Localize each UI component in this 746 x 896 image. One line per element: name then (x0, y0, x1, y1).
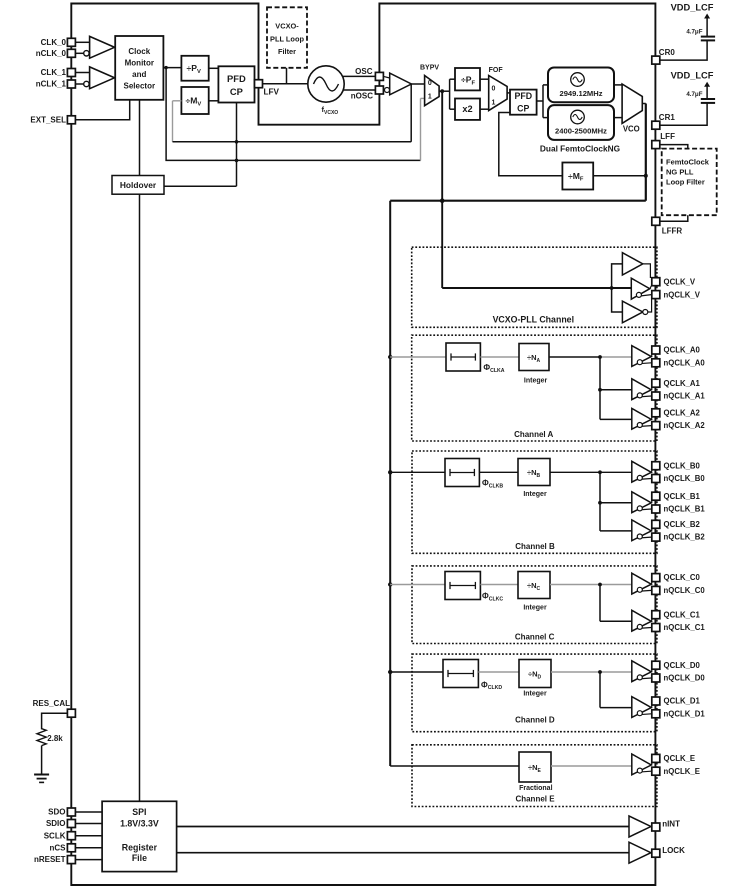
svg-text:PFD: PFD (514, 91, 532, 101)
svg-text:PLL Loop: PLL Loop (270, 35, 304, 44)
svg-text:0: 0 (491, 85, 495, 92)
svg-text:VCXO-PLL Channel: VCXO-PLL Channel (493, 314, 574, 324)
svg-text:QCLK_V: QCLK_V (664, 277, 696, 286)
svg-text:nQCLK_A0: nQCLK_A0 (664, 358, 706, 367)
svg-text:FOF: FOF (489, 67, 504, 74)
svg-text:CLK_1: CLK_1 (41, 68, 67, 77)
svg-text:nRESET: nRESET (34, 855, 66, 864)
svg-text:CR0: CR0 (659, 48, 676, 57)
svg-text:Channel D: Channel D (515, 715, 555, 724)
svg-text:Selector: Selector (124, 81, 156, 90)
svg-text:Integer: Integer (524, 378, 548, 385)
svg-text:Integer: Integer (523, 691, 547, 698)
svg-text:EXT_SEL: EXT_SEL (30, 116, 66, 125)
svg-text:QCLK_B2: QCLK_B2 (664, 520, 701, 529)
svg-text:nINT: nINT (662, 820, 680, 829)
svg-text:Channel C: Channel C (515, 633, 555, 642)
svg-text:RES_CAL: RES_CAL (33, 699, 70, 708)
svg-text:BYPV: BYPV (420, 64, 439, 71)
svg-text:QCLK_B0: QCLK_B0 (664, 461, 701, 470)
svg-text:nQCLK_B2: nQCLK_B2 (664, 533, 706, 542)
svg-text:1.8V/3.3V: 1.8V/3.3V (120, 819, 159, 829)
svg-text:QCLK_A1: QCLK_A1 (664, 379, 701, 388)
svg-text:Channel A: Channel A (514, 430, 553, 439)
svg-text:2949.12MHz: 2949.12MHz (559, 89, 602, 98)
svg-text:Fractional: Fractional (519, 785, 553, 792)
svg-text:CR1: CR1 (659, 113, 676, 122)
svg-text:2.8k: 2.8k (47, 734, 63, 743)
svg-text:Integer: Integer (523, 605, 547, 612)
svg-text:FemtoClock: FemtoClock (666, 157, 710, 166)
svg-text:Integer: Integer (523, 491, 547, 498)
svg-text:OSC: OSC (355, 67, 373, 76)
svg-text:x2: x2 (462, 104, 472, 114)
svg-text:SPI: SPI (132, 807, 146, 817)
svg-text:nQCLK_A2: nQCLK_A2 (664, 421, 706, 430)
svg-text:Filter: Filter (278, 47, 296, 56)
svg-text:LFV: LFV (264, 88, 280, 97)
svg-text:SDIO: SDIO (46, 819, 66, 828)
svg-text:2400-2500MHz: 2400-2500MHz (555, 127, 607, 136)
svg-text:nCS: nCS (50, 843, 67, 852)
svg-text:1: 1 (491, 99, 495, 106)
svg-text:Clock: Clock (128, 47, 150, 56)
svg-text:4.7μF: 4.7μF (686, 91, 702, 98)
svg-text:nQCLK_B0: nQCLK_B0 (664, 474, 706, 483)
svg-text:nQCLK_B1: nQCLK_B1 (664, 505, 706, 514)
svg-text:nQCLK_C1: nQCLK_C1 (664, 623, 706, 632)
svg-text:nQCLK_D0: nQCLK_D0 (664, 674, 706, 683)
svg-text:QCLK_D0: QCLK_D0 (664, 661, 701, 670)
svg-text:nOSC: nOSC (351, 92, 373, 101)
svg-text:LOCK: LOCK (662, 846, 685, 855)
svg-text:LFF: LFF (660, 132, 675, 141)
svg-text:nCLK_0: nCLK_0 (36, 49, 67, 58)
svg-text:LFFR: LFFR (662, 227, 683, 236)
svg-text:4.7μF: 4.7μF (686, 28, 702, 35)
svg-text:QCLK_D1: QCLK_D1 (664, 697, 701, 706)
svg-text:SCLK: SCLK (44, 831, 66, 840)
svg-text:nQCLK_A1: nQCLK_A1 (664, 392, 706, 401)
svg-text:Channel E: Channel E (515, 795, 555, 804)
svg-text:SDO: SDO (48, 808, 65, 817)
svg-text:nQCLK_E: nQCLK_E (664, 767, 700, 776)
svg-text:Loop Filter: Loop Filter (666, 178, 705, 187)
svg-text:PFD: PFD (227, 73, 246, 84)
svg-text:QCLK_A0: QCLK_A0 (664, 346, 701, 355)
svg-text:Register: Register (122, 843, 158, 853)
svg-text:CP: CP (230, 86, 243, 97)
svg-text:CLK_0: CLK_0 (41, 38, 67, 47)
svg-text:0: 0 (428, 80, 432, 87)
svg-text:Dual FemtoClockNG: Dual FemtoClockNG (540, 143, 620, 153)
svg-text:nQCLK_D1: nQCLK_D1 (664, 709, 706, 718)
svg-text:Holdover: Holdover (120, 180, 157, 190)
svg-text:nCLK_1: nCLK_1 (36, 80, 67, 89)
svg-text:VCXO-: VCXO- (275, 21, 299, 30)
svg-text:nQCLK_C0: nQCLK_C0 (664, 586, 706, 595)
svg-text:VCO: VCO (623, 124, 640, 133)
svg-text:QCLK_B1: QCLK_B1 (664, 492, 701, 501)
svg-text:and: and (132, 70, 146, 79)
svg-text:NG PLL: NG PLL (666, 167, 694, 176)
svg-text:VDD_LCF: VDD_LCF (671, 3, 714, 13)
svg-text:VDD_LCF: VDD_LCF (671, 71, 714, 81)
svg-text:CP: CP (517, 104, 529, 114)
svg-text:nQCLK_V: nQCLK_V (664, 290, 701, 299)
svg-text:1: 1 (428, 93, 432, 100)
svg-text:Monitor: Monitor (125, 59, 154, 68)
svg-text:File: File (132, 853, 147, 863)
svg-text:QCLK_A2: QCLK_A2 (664, 408, 701, 417)
svg-text:QCLK_E: QCLK_E (664, 754, 696, 763)
svg-text:QCLK_C0: QCLK_C0 (664, 573, 701, 582)
svg-text:Channel B: Channel B (515, 542, 555, 551)
svg-text:QCLK_C1: QCLK_C1 (664, 610, 701, 619)
